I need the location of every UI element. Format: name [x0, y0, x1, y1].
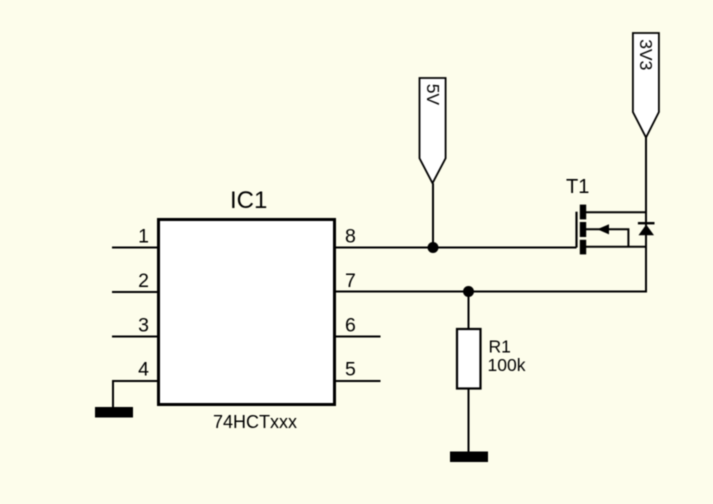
svg-text:6: 6 — [345, 315, 356, 337]
junction dot at pin7/R1 — [463, 286, 474, 297]
wire pin2 — [112, 291, 158, 293]
transistor T1 source lead — [586, 246, 647, 248]
transistor T1 drain lead — [586, 211, 647, 213]
transistor T1 gate plate — [575, 212, 577, 248]
ground symbol at pin4 — [95, 407, 133, 418]
svg-text:3V3: 3V3 — [636, 39, 656, 70]
svg-text:IC1: IC1 — [230, 187, 267, 214]
junction dot at 5V/pin8 — [428, 242, 439, 253]
wire pin6 stub — [335, 336, 381, 338]
body diode triangle — [639, 225, 655, 236]
svg-text:4: 4 — [138, 359, 149, 381]
supply flag 5V — [420, 78, 446, 183]
transistor T1 channel bar bottom — [580, 240, 586, 255]
wire pin7 net — [335, 138, 646, 292]
svg-text:3: 3 — [138, 315, 149, 337]
ground symbol at R1 — [450, 452, 488, 463]
transistor T1 body connection with arrow — [586, 229, 628, 247]
wire pin8 to T1 gate — [335, 247, 577, 249]
svg-text:74HCTxxx: 74HCTxxx — [213, 412, 297, 432]
wire pin5 stub — [335, 380, 381, 382]
IC U1 box — [159, 220, 335, 405]
svg-text:R1: R1 — [489, 337, 511, 357]
svg-text:8: 8 — [345, 226, 356, 248]
transistor T1 channel bar middle — [580, 222, 586, 237]
svg-text:5V: 5V — [423, 84, 443, 106]
svg-text:T1: T1 — [566, 176, 589, 198]
body diode cathode bar — [638, 222, 655, 224]
svg-text:5: 5 — [345, 359, 356, 381]
svg-text:2: 2 — [138, 270, 149, 292]
svg-text:1: 1 — [138, 226, 149, 248]
resistor R1 body — [457, 329, 481, 389]
wire R1 bottom — [468, 390, 470, 453]
svg-text:7: 7 — [345, 270, 356, 292]
wire 5V to pin8 net — [432, 183, 434, 247]
wire pin3 — [112, 336, 158, 338]
supply flag 3V3 — [633, 33, 659, 138]
svg-text:100k: 100k — [488, 355, 526, 375]
transistor T1 channel bar top — [580, 205, 586, 220]
wire pin4 to ground — [113, 381, 158, 408]
wire pin1 — [112, 247, 158, 249]
wire R1 top — [468, 292, 470, 329]
